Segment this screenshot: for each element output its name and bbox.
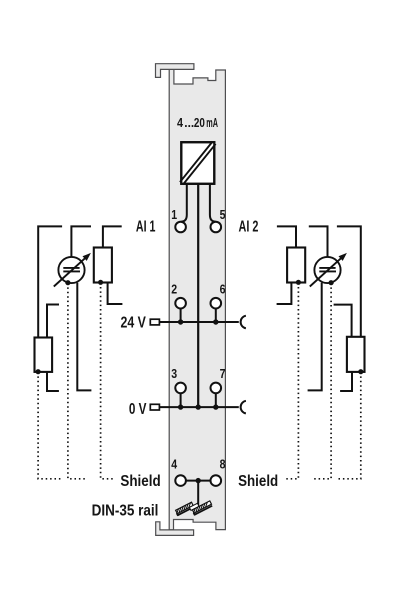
resistor left supply — [94, 248, 112, 283]
junction on 0V rail at terminal 3 — [178, 404, 183, 409]
junction on 0V rail at internal bus — [196, 404, 201, 409]
junction at left transmitter shield — [65, 280, 70, 285]
svg-text:24 V: 24 V — [121, 314, 147, 331]
wire: left transmitter bottom hook — [77, 283, 91, 391]
wire: shield link terminal 4 to terminal 8 — [186, 480, 211, 482]
wire: left loop 2 corner to transmitter — [71, 226, 91, 257]
DIN-35 rail symbol — [176, 501, 213, 516]
transmitter current source left — [58, 257, 84, 283]
resistor left sensor — [35, 338, 53, 372]
svg-text:3: 3 — [171, 366, 177, 381]
wire: right supply resistor bottom hook — [277, 283, 292, 305]
svg-text:7: 7 — [220, 366, 226, 381]
wire: right sensor bottom hook — [340, 372, 352, 391]
wire: U1 left pin to terminal 1 — [181, 184, 187, 222]
junction at left supply resistor shield — [98, 280, 103, 285]
terminal 8 — [211, 475, 222, 486]
wire: right sensor top hook from 24V side — [334, 305, 352, 337]
wire: right transmitter bottom hook — [308, 283, 322, 391]
junction at right sensor shield — [358, 369, 363, 374]
terminal 2 — [175, 298, 186, 309]
wire: left loop 3 corner to supply resistor — [103, 226, 122, 247]
svg-text:2: 2 — [171, 281, 177, 296]
wire: left supply resistor bottom hook — [108, 283, 123, 305]
wire: shield drain dotted left 1 — [38, 372, 62, 479]
terminal 5 — [211, 222, 222, 233]
module bottom foot latch — [156, 522, 194, 536]
wire: shield drain dotted left 2 — [68, 283, 88, 479]
terminal 4 — [175, 475, 186, 486]
terminal 6 — [211, 298, 222, 309]
wire: left sensor bottom hook — [47, 372, 59, 391]
module body (I/O module housing) — [169, 69, 225, 530]
svg-text:6: 6 — [220, 281, 226, 296]
resistor right supply — [287, 248, 305, 283]
terminal 1 — [175, 222, 186, 233]
terminal 3 — [175, 383, 186, 394]
junction at right transmitter shield — [329, 280, 334, 285]
module top latch bar — [156, 64, 194, 78]
svg-text:Shield: Shield — [120, 473, 160, 490]
svg-text:8: 8 — [220, 457, 226, 472]
wire: 24V rail — [159, 321, 238, 323]
adjustment arrow left — [54, 256, 87, 286]
wire: terminal 3 stub — [180, 393, 182, 407]
wire: shield to DIN rail — [197, 481, 199, 508]
wire: shield drain dotted left 3 — [101, 283, 114, 479]
svg-text:...: ... — [184, 116, 194, 130]
wire: terminal 2 stub — [180, 309, 182, 323]
svg-text:4: 4 — [171, 457, 177, 472]
svg-text:Shield: Shield — [238, 473, 278, 490]
svg-text:0 V: 0 V — [129, 401, 147, 418]
0V pass-through contact arc — [241, 401, 246, 414]
wire: left loop 1 corner to sensor resistor — [38, 226, 62, 337]
wire: shield drain dotted right 1 — [338, 372, 361, 479]
wire: left sensor top hook from 24V side — [47, 305, 59, 338]
svg-text:DIN-35 rail: DIN-35 rail — [92, 502, 159, 519]
24V pass-through contact arc — [241, 316, 246, 329]
resistor right sensor — [347, 337, 365, 372]
24V field supply tab — [150, 319, 159, 325]
junction at right supply resistor shield — [296, 280, 301, 285]
wire: right loop 3 corner to supply resistor — [277, 226, 296, 247]
wire: terminal 6 stub — [215, 309, 217, 323]
transmitter current source right — [314, 257, 340, 283]
0V field supply tab — [150, 404, 159, 410]
svg-text:5: 5 — [220, 207, 226, 222]
junction on 24V rail at terminal 2 — [178, 319, 183, 324]
adjustment arrow right — [310, 256, 343, 286]
wire: shield drain dotted right 2 — [313, 283, 332, 479]
terminal 7 — [211, 383, 222, 394]
wire: terminal 7 stub — [215, 393, 217, 407]
svg-text:AI 1: AI 1 — [136, 219, 156, 236]
current source bars right — [319, 268, 336, 272]
current source bars left — [63, 268, 80, 272]
junction on shield link — [196, 478, 201, 483]
A/D converter U1 — [181, 142, 214, 184]
svg-text:mA: mA — [206, 116, 218, 130]
svg-text:AI 2: AI 2 — [239, 219, 259, 236]
wire: shield drain dotted right 3 — [286, 283, 298, 479]
junction at left sensor shield — [36, 369, 41, 374]
svg-text:1: 1 — [171, 207, 177, 222]
wire: U1 right pin to terminal 5 — [210, 184, 216, 222]
wire: 0V rail — [159, 406, 238, 408]
svg-text:4: 4 — [177, 116, 183, 130]
wire: right loop 1 corner to sensor resistor — [337, 226, 361, 337]
junction on 24V rail at terminal 6 — [213, 319, 218, 324]
svg-text:20: 20 — [194, 116, 205, 130]
wire: right loop 2 corner to transmitter — [309, 226, 328, 257]
wire: U1 center pin internal bus down to 0V node — [197, 184, 199, 407]
junction on 0V rail at terminal 7 — [213, 404, 218, 409]
